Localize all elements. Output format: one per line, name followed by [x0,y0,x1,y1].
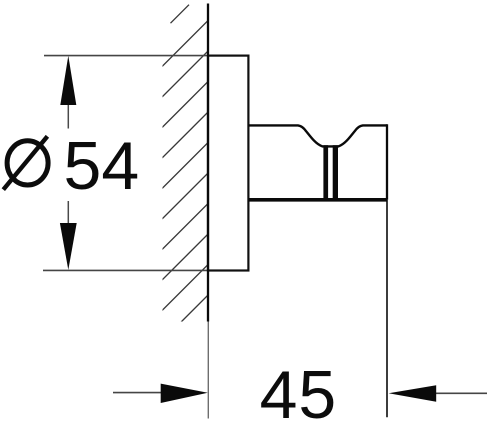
svg-text:54: 54 [64,128,140,204]
svg-text:45: 45 [260,357,338,424]
